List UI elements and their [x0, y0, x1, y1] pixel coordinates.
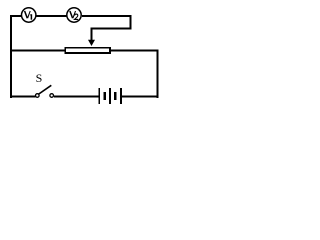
switch left terminal: [36, 94, 40, 98]
battery pack: [98, 88, 122, 104]
switch right terminal: [50, 94, 54, 98]
wire: bottom, left corner to switch: [10, 96, 36, 98]
wire: top, V2 to top-right corner: [82, 15, 132, 17]
V1 meter circle: [22, 8, 36, 22]
battery long plate 3: [120, 88, 122, 104]
wire: right vertical side of loop: [157, 50, 159, 99]
switch lever (open): [39, 85, 52, 94]
V1 label glyphs: [25, 11, 28, 18]
switch S: [36, 85, 54, 97]
battery long plate 1: [98, 88, 100, 104]
rheostat body outline: [64, 47, 111, 54]
battery short plate 1: [103, 92, 106, 100]
rheostat R (slide resistor body): [64, 47, 111, 54]
wire: left vertical side of loop: [10, 15, 12, 98]
battery short plate 2: [114, 92, 117, 100]
voltmeter V2: [67, 8, 81, 22]
battery long plate 2: [109, 88, 111, 104]
wire: bottom, battery to right corner: [122, 96, 159, 98]
wire: middle left, from left side to rheostat: [10, 50, 65, 52]
wire: middle right, rheostat to right side: [111, 50, 159, 52]
V2 meter circle: [67, 8, 81, 22]
svg-text:S: S: [36, 71, 43, 85]
V2 label glyphs: [70, 11, 73, 18]
wiper arrow onto rheostat: [88, 40, 95, 46]
wire: bottom, switch to battery: [54, 96, 98, 98]
wire: wiper vertical lead: [91, 28, 93, 41]
wire: top, left corner to voltmeter V1: [10, 15, 21, 17]
wire: right vertical drop from top wire: [130, 15, 132, 30]
wire: top, between V1 and V2: [37, 15, 67, 17]
wire: horizontal jog back to wiper: [91, 28, 132, 30]
voltmeter V1: [22, 8, 36, 22]
